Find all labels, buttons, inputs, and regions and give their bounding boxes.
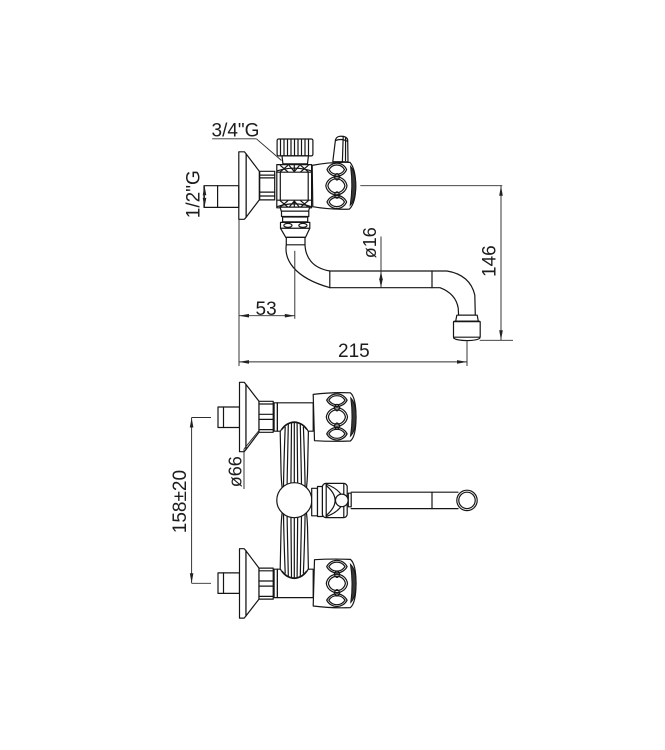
svg-text:158±20: 158±20 <box>170 470 191 533</box>
body inner edge lines <box>279 172 281 200</box>
connector rings <box>312 488 318 516</box>
knob (front view) <box>313 393 356 442</box>
spout end circle <box>457 490 477 510</box>
bottom valve assembly (mirror) <box>218 549 356 618</box>
lower connector stack <box>280 207 310 211</box>
dim 146 <box>360 186 513 341</box>
collar ring (bottom) <box>274 569 277 597</box>
inlet stub (bottom) <box>218 573 240 594</box>
nut (bottom) <box>259 568 273 599</box>
label ø66 <box>226 431 260 490</box>
dark cap <box>350 167 356 206</box>
svg-text:ø66: ø66 <box>226 456 246 487</box>
inlet stub <box>218 407 240 428</box>
spout tube (front view) <box>351 491 458 493</box>
knob (bottom, front view) <box>313 559 356 608</box>
1/2G dimension arrows <box>204 186 206 208</box>
flange cone <box>246 385 259 450</box>
lever (diverter) <box>333 136 348 162</box>
central cross handle bottom blade <box>280 505 308 578</box>
wall extension line <box>238 219 240 366</box>
neck under cap <box>282 156 308 164</box>
flange cone <box>246 154 259 217</box>
svg-text:146: 146 <box>479 245 500 277</box>
wall flange plate <box>239 152 246 220</box>
flange plate (bottom) <box>240 549 247 618</box>
bottom knurl band <box>277 199 312 201</box>
spout nut with ellipses <box>281 222 310 228</box>
svg-text:ø16: ø16 <box>360 227 380 258</box>
dim ø16 <box>360 227 383 288</box>
svg-text:1/2"G: 1/2"G <box>184 170 205 218</box>
valve body neck top (3/4 cap) <box>277 139 313 156</box>
facet ovals <box>326 163 347 208</box>
central cross handle top blade <box>280 422 308 495</box>
aerator ring <box>456 315 479 321</box>
dim 215 <box>239 341 467 366</box>
spout tube <box>286 237 475 315</box>
dim 158±20 <box>170 418 211 584</box>
body (bottom) <box>277 569 313 597</box>
nut <box>259 401 273 432</box>
top knurl band <box>277 168 311 171</box>
svg-text:53: 53 <box>256 299 277 320</box>
spout nut housing <box>322 483 351 517</box>
flange plate <box>240 382 247 451</box>
top valve assembly <box>218 382 356 451</box>
central circle <box>277 483 312 518</box>
svg-text:215: 215 <box>338 341 370 362</box>
collar ring <box>274 403 277 431</box>
hex nut at flange <box>260 171 275 200</box>
inlet stub 1/2" <box>204 186 239 208</box>
flange cone (bottom) <box>246 551 259 616</box>
body <box>277 403 313 431</box>
knob (side view) <box>312 162 356 209</box>
valve body <box>277 165 312 208</box>
dim 53 <box>239 251 295 320</box>
aerator body <box>454 321 481 337</box>
